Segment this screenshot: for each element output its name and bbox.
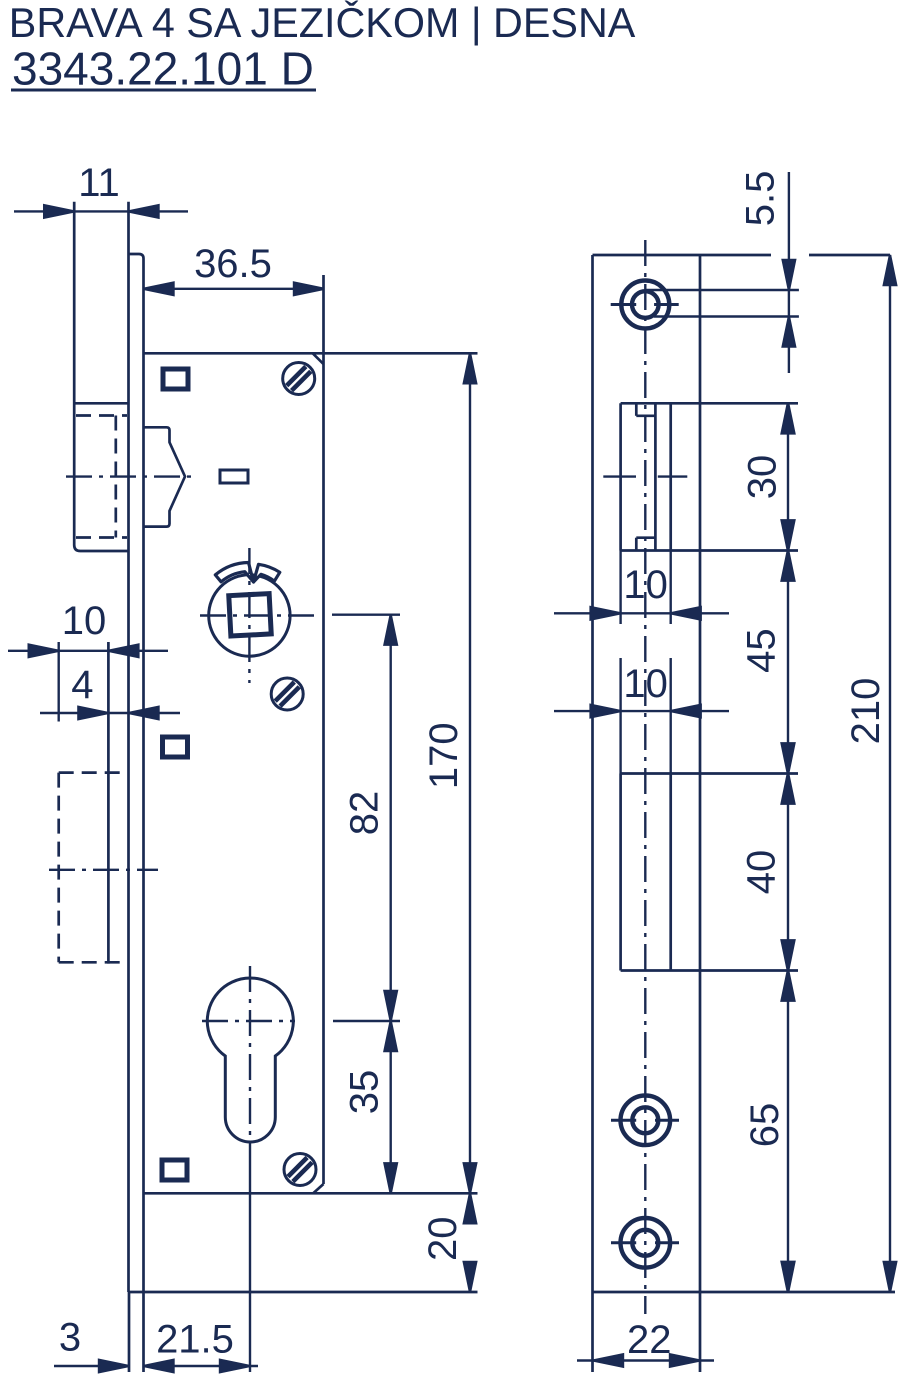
lower screw B ticks (611, 1241, 636, 1244)
dim 10 upper (latch cutout) (554, 551, 729, 625)
cylinder 82/35 extension tick (333, 1020, 400, 1022)
svg-text:36.5: 36.5 (194, 242, 272, 286)
faceplate extension below left (128, 1292, 131, 1372)
euro cylinder hole (207, 978, 293, 1142)
plate extension below right (699, 1292, 702, 1372)
5.5 extension lines (646, 289, 799, 291)
cylinder vertical centerline (249, 966, 251, 1150)
svg-text:5.5: 5.5 (738, 171, 782, 227)
title underline (11, 89, 316, 92)
latch center ticks (603, 475, 636, 477)
lower screw A ticks (611, 1119, 636, 1122)
lock case bottom right chamfer (313, 1184, 323, 1193)
lower screw A inner (632, 1107, 658, 1133)
small slot near follower (220, 470, 248, 483)
dim 20 (464, 1193, 476, 1292)
latch housing top edge (74, 402, 128, 405)
svg-text:82: 82 (343, 791, 387, 836)
cylinder axis extension to bottom (249, 1150, 251, 1372)
svg-text:22: 22 (627, 1318, 672, 1362)
deadbolt cutout bottom edge + extension (621, 969, 798, 972)
dim 35 (385, 1021, 397, 1193)
plate top edge + 210 extension (593, 254, 772, 257)
svg-text:10: 10 (62, 599, 107, 643)
svg-text:3: 3 (59, 1316, 81, 1360)
square hole top (163, 369, 188, 389)
latch housing left edge / 11 extension left (74, 202, 128, 551)
square hole bottom (162, 1160, 187, 1180)
lock case right edge + 36.5 extension (322, 275, 325, 1184)
screw top (283, 363, 315, 395)
lower screw B outer (621, 1218, 671, 1268)
svg-text:170: 170 (422, 722, 466, 789)
dim 10 lower (deadbolt cutout) (554, 658, 729, 774)
svg-text:35: 35 (343, 1070, 387, 1115)
plate bottom edge + extensions (593, 1291, 896, 1294)
follower vertical centerline (248, 548, 250, 683)
svg-text:3343.22.101 D: 3343.22.101 D (12, 43, 314, 95)
follower right wing (outlined band) (254, 564, 280, 582)
square hole middle (163, 737, 188, 757)
plate extension below left (591, 1292, 594, 1372)
follower square nut (229, 594, 271, 636)
follower left wing (outlined band) (215, 563, 253, 583)
plate left edge (591, 255, 594, 1292)
latch cutout left edge (619, 403, 622, 550)
svg-text:BRAVA 4 SA JEZIČKOM | DESNA: BRAVA 4 SA JEZIČKOM | DESNA (9, 0, 636, 46)
hidden latch body dashed right (114, 416, 117, 538)
dim 45 arrows (782, 551, 794, 774)
top screw hole inner (632, 291, 659, 318)
lock case bottom edge + 170/20 extension (144, 1192, 478, 1195)
dim chain 30/45/40/65 line (787, 403, 789, 1292)
dim 82 (385, 615, 397, 1021)
svg-text:20: 20 (421, 1217, 465, 1262)
deadbolt hidden dashed bottom (59, 961, 127, 964)
dim 210 (884, 255, 896, 1292)
dim 36.5 (144, 283, 325, 295)
dim 65 arrows (782, 971, 794, 1293)
top screw hole outer (621, 281, 669, 329)
svg-text:210: 210 (844, 678, 888, 745)
svg-text:45: 45 (740, 628, 784, 673)
lower screw A outer (621, 1096, 671, 1146)
deadbolt hidden dashed top (59, 771, 127, 774)
deadbolt centerline (49, 869, 158, 871)
deadbolt cutout right edge (669, 774, 672, 971)
latch centerline (66, 475, 193, 477)
dim 40 arrows (782, 774, 794, 971)
dim 170 (464, 353, 476, 1193)
latch cutout inner right edge (654, 403, 657, 550)
faceplate extension below right (142, 1292, 145, 1372)
cylinder horizontal centerline (202, 1020, 295, 1022)
svg-text:40: 40 (740, 850, 784, 895)
lower screw B inner (632, 1230, 658, 1256)
latch cutout lip notch verticals (635, 403, 638, 416)
follower 82 extension tick (332, 614, 400, 616)
latch bolt (144, 427, 186, 526)
follower circle (209, 575, 290, 656)
svg-text:30: 30 (740, 455, 784, 500)
dim 3 (54, 1360, 129, 1372)
follower horizontal centerline (200, 614, 318, 616)
svg-text:4: 4 (71, 663, 93, 707)
top screw ticks (611, 303, 637, 306)
screw middle (271, 678, 303, 710)
dim 22 (577, 1354, 714, 1366)
dim 11 (14, 205, 188, 217)
faceplate bottom edge + 20/170 extension (129, 1291, 478, 1294)
svg-text:21.5: 21.5 (156, 1318, 234, 1362)
screw bottom (284, 1154, 316, 1186)
plate right edge (699, 255, 702, 1292)
plate vertical centerline (644, 240, 646, 1314)
lock case top edge + 170 extension (144, 352, 478, 355)
dim 21.5 (144, 1360, 259, 1372)
latch cutout outer right edge (669, 403, 672, 550)
latch cutout lip inner horizontals (636, 414, 655, 417)
deadbolt right solid line / 10-4 extension (107, 642, 110, 964)
faceplate outer (right) edge long line (142, 259, 145, 1293)
svg-text:11: 11 (78, 161, 120, 205)
svg-text:10: 10 (623, 563, 668, 607)
dim 30 arrows (782, 403, 794, 550)
deadbolt cutout top edge + 40 extension (621, 772, 798, 775)
deadbolt cutout left edge (619, 774, 622, 971)
faceplate inner (left) edge long line (127, 202, 130, 1292)
hidden latch body dashed top (76, 414, 127, 417)
svg-text:65: 65 (743, 1103, 787, 1148)
faceplate top edge (129, 254, 144, 259)
latch cutout bottom edge + extension (621, 549, 798, 552)
lock case top right chamfer (313, 353, 324, 364)
deadbolt hidden dashed left (57, 773, 60, 963)
dim 5.5 (783, 172, 795, 373)
hidden latch body dashed bottom (76, 536, 127, 539)
latch cutout top edge + 30 extension (621, 402, 798, 405)
svg-text:10: 10 (623, 662, 668, 706)
dim 4 (40, 707, 180, 719)
dim 10 left (8, 642, 168, 722)
